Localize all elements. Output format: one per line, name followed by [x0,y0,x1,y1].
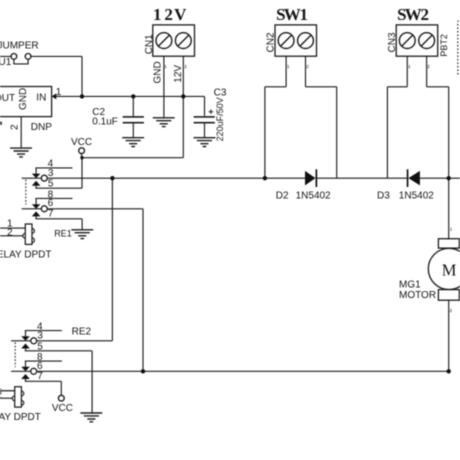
svg-text:2: 2 [7,227,13,238]
svg-text:5: 5 [37,341,43,352]
svg-text:2: 2 [164,5,173,24]
svg-text:MG1: MG1 [399,280,421,291]
svg-text:M: M [442,260,457,279]
svg-text:0.1uF: 0.1uF [92,117,118,128]
svg-text:2: 2 [184,64,187,69]
svg-text:VCC: VCC [71,137,92,148]
svg-text:CN1: CN1 [144,34,155,54]
svg-text:3: 3 [48,168,54,179]
svg-text:VCC: VCC [52,403,73,414]
svg-text:1: 1 [56,87,62,98]
svg-text:RE1: RE1 [54,228,72,238]
svg-text:220uF/50V: 220uF/50V [215,97,225,141]
svg-text:CN3: CN3 [387,32,398,52]
svg-text:RELAY DPDT: RELAY DPDT [0,412,41,423]
svg-text:1: 1 [153,5,162,24]
svg-text:JUMPER: JUMPER [0,41,39,52]
svg-text:2: 2 [9,124,20,130]
svg-text:RELAY DPDT: RELAY DPDT [0,250,51,261]
svg-text:7: 7 [37,371,43,382]
svg-text:GND: GND [18,88,29,110]
svg-text:W: W [405,5,422,24]
svg-text:IN: IN [36,92,46,103]
svg-text:2: 2 [421,5,430,24]
svg-text:2: 2 [306,64,309,69]
svg-text:2: 2 [0,390,2,401]
svg-text:W: W [284,5,301,24]
svg-text:C3: C3 [214,88,227,99]
svg-text:GND: GND [153,61,164,83]
svg-text:1: 1 [300,5,309,24]
svg-text:1: 1 [450,226,453,231]
svg-text:MOTOR: MOTOR [399,290,436,301]
svg-text:1N5402: 1N5402 [399,190,434,201]
svg-text:3: 3 [37,331,43,342]
svg-text:2: 2 [450,308,453,313]
svg-text:OUT: OUT [0,93,15,104]
svg-text:V: V [174,5,187,24]
svg-text:1: 1 [408,64,411,69]
svg-text:2: 2 [427,64,430,69]
svg-text:1: 1 [164,64,167,69]
svg-text:DNP: DNP [31,122,52,133]
svg-text:D2: D2 [276,190,289,201]
svg-text:U1: U1 [0,57,12,68]
svg-text:1N5402: 1N5402 [296,190,331,201]
svg-text:12V: 12V [173,65,184,83]
svg-text:RE2: RE2 [72,327,92,338]
svg-text:1: 1 [287,64,290,69]
svg-text:7: 7 [48,208,54,219]
svg-text:PBT2: PBT2 [439,34,449,57]
svg-text:CN2: CN2 [265,32,276,52]
svg-text:5: 5 [48,179,54,190]
svg-text:D3: D3 [377,190,390,201]
